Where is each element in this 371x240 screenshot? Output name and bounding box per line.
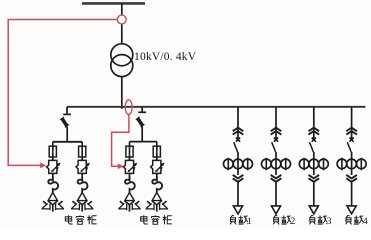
arrow into cabinet 2: [118, 164, 124, 170]
reactor L4: [152, 177, 162, 193]
breaker contact cross: [274, 138, 278, 142]
capacitor C3: [118, 192, 140, 211]
drawout chevrons lower: [346, 175, 357, 182]
wire red sense line to cabinet 1: [8, 20, 117, 166]
fuse-switch blade QF1: [60, 117, 69, 127]
contactor KM2: [76, 159, 90, 174]
current transformers: [224, 158, 253, 171]
wire drop: [351, 107, 353, 139]
fuse FU4: [153, 146, 160, 157]
svg-text:3: 3: [327, 217, 332, 227]
current transformers: [262, 158, 291, 171]
breaker blade: [347, 142, 351, 152]
capacitor C4: [146, 192, 168, 211]
wire branch A: [129, 142, 131, 179]
current transformers: [299, 158, 328, 171]
transformer T1 10kV/0.4kV: [111, 44, 133, 66]
current transformers: [337, 158, 366, 171]
busbar 0.4kV: [67, 106, 366, 108]
reactor L2: [78, 177, 88, 193]
capacitor C1: [42, 192, 64, 211]
contactor KM1: [47, 159, 61, 174]
load arrow: [347, 206, 356, 214]
load arrow: [309, 206, 318, 214]
wire branch A: [52, 142, 54, 179]
contactor KM3: [123, 159, 137, 174]
breaker contact cross: [350, 138, 354, 142]
wire to arrow: [351, 182, 353, 206]
drawout chevrons lower: [309, 175, 320, 182]
incoming supply bar: [82, 2, 145, 5]
drawout chevrons lower: [271, 175, 282, 182]
wire to arrow: [237, 182, 239, 206]
svg-text:1: 1: [247, 217, 252, 227]
wire through CTs: [313, 152, 315, 175]
wire branch B: [81, 142, 83, 179]
breaker contact cross: [312, 138, 316, 142]
drawout chevrons: [233, 128, 244, 135]
contactor KM4: [151, 159, 165, 174]
wire branch B: [156, 142, 158, 179]
wire to arrow: [313, 182, 315, 206]
fuse-switch blade QF2: [136, 117, 145, 127]
load arrow: [271, 206, 280, 214]
fuse FU3: [126, 146, 133, 157]
breaker blade: [310, 142, 314, 152]
wire supply drop: [121, 3, 123, 44]
drawout chevrons: [309, 128, 320, 135]
wire drop: [237, 107, 239, 139]
wire bus tap: [141, 107, 143, 112]
arrow into cabinet 1: [40, 163, 46, 169]
drawout chevrons lower: [233, 175, 244, 182]
label load 2 负载2: [273, 215, 291, 224]
wire to arrow: [275, 182, 277, 206]
wire through CTs: [351, 152, 353, 175]
reactor L1: [48, 177, 58, 193]
split bar cabinet 2: [130, 141, 157, 143]
contact bar: [63, 113, 71, 115]
fuse FU2: [79, 146, 86, 157]
label load 1 负载1: [230, 215, 248, 224]
breaker contact cross: [236, 138, 240, 142]
contact bar: [138, 111, 146, 113]
drawout chevrons: [271, 128, 282, 135]
reactor L3: [125, 177, 135, 193]
load arrow: [233, 206, 242, 214]
label cabinet 1 电容柜: [65, 215, 96, 224]
wire drop: [313, 107, 315, 139]
wire bus elbow down: [66, 107, 68, 114]
label cabinet 2 电容柜: [141, 215, 172, 224]
wire transformer to bus: [121, 77, 123, 109]
label load 4 负载4: [346, 215, 364, 224]
fuse FU1: [49, 146, 56, 157]
wire drop: [275, 107, 277, 139]
wire through CTs: [275, 152, 277, 175]
drawout chevrons: [346, 128, 357, 135]
breaker blade: [234, 142, 238, 152]
wire to split: [141, 126, 143, 141]
capacitor C2: [71, 192, 93, 211]
wire through CTs: [237, 152, 239, 175]
wire red sense line to cabinet 2: [112, 115, 129, 167]
wire to split: [66, 127, 68, 142]
breaker blade: [272, 142, 276, 152]
svg-text:2: 2: [291, 217, 296, 227]
svg-text:4: 4: [363, 217, 368, 227]
CT sensor ellipse (red) on bus: [125, 100, 132, 115]
svg-text:10kV/0. 4kV: 10kV/0. 4kV: [134, 51, 197, 63]
split bar cabinet 1: [53, 141, 82, 143]
label load 3 负载3: [309, 215, 327, 224]
CT sensor circle (red): [117, 15, 126, 24]
